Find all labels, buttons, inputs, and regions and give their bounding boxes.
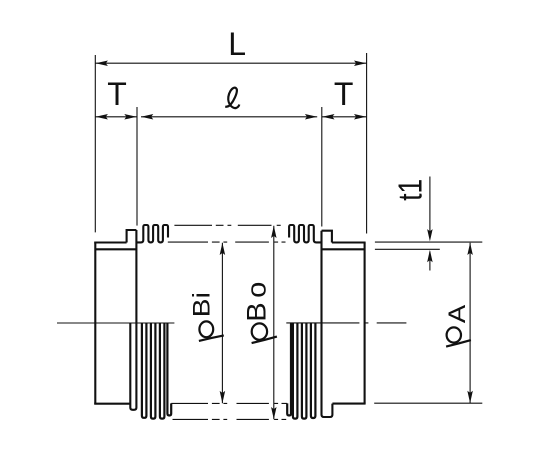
dimension line T left <box>95 116 137 118</box>
dimension line phi Bi <box>221 243 223 403</box>
flange F2 right: top surface <box>332 241 366 243</box>
label phi A <box>444 304 471 347</box>
convolution U4 left <box>160 323 165 419</box>
dimension line phi Bo <box>273 226 275 419</box>
bellows B1 top-left corrugations <box>136 225 321 242</box>
arrow ell right <box>305 114 317 120</box>
centerline axis left <box>57 322 174 324</box>
arrow Bo top <box>271 226 277 238</box>
flange F2 right: second line (sheet t1) <box>322 248 365 250</box>
extension line left inner <box>136 107 138 226</box>
convolution U4' right <box>311 323 316 418</box>
label phi Bo <box>241 277 277 343</box>
arrow ell left <box>141 114 153 120</box>
arrow T2 left <box>322 114 334 120</box>
arrow Bo bottom <box>271 407 277 419</box>
bellows B2 top-right corrugations <box>289 225 321 242</box>
centerline axis right <box>286 322 406 324</box>
flange F2 right: top tab <box>322 231 332 243</box>
arrow L right <box>354 60 366 65</box>
arrow A top <box>467 243 473 255</box>
extension line right inner <box>321 107 323 227</box>
flange F1 left: top tab <box>127 230 137 243</box>
dimension line phi A <box>469 243 471 403</box>
phantom line root bottom <box>171 402 287 404</box>
arrow Bi top <box>220 243 226 255</box>
convolution U3' right <box>302 323 307 419</box>
flange F1 left: outer edge <box>94 243 96 404</box>
flange F1 left: inner edge + bottom tab U <box>130 230 136 410</box>
convolution U3 left <box>151 323 156 419</box>
extension line flange top right <box>375 241 482 243</box>
arrow L left <box>96 60 108 65</box>
dimension line L <box>95 62 366 64</box>
extension line left outer <box>94 55 96 232</box>
arrow t1 down <box>427 229 433 241</box>
label phi Bi <box>187 292 223 341</box>
arrow t1 up <box>427 250 433 262</box>
flange F1 left: top surface <box>94 241 126 243</box>
label ell script <box>225 88 239 108</box>
arrow A bottom <box>467 391 473 403</box>
arrow T1 left <box>96 114 108 120</box>
dimension line T right <box>322 116 367 118</box>
bellows section convolutions (bottom half) <box>142 323 316 419</box>
arrow T2 right <box>354 114 366 120</box>
convolution U1' right <box>287 323 291 416</box>
dimension line ell <box>141 116 317 118</box>
extension line sheet bottom right <box>375 248 440 250</box>
svg-text:Bo: Bo <box>241 277 271 322</box>
arrow Bi bottom <box>220 391 226 403</box>
svg-text:T: T <box>334 76 354 112</box>
flange F1 left: bottom surface <box>94 403 130 405</box>
flange F2 right: bottom surface <box>332 403 365 405</box>
phantom line crest bottom <box>173 418 287 420</box>
svg-text:L: L <box>228 26 246 62</box>
svg-text:T: T <box>107 76 127 112</box>
svg-text:t1: t1 <box>393 179 429 201</box>
t1 arrow shafts <box>429 177 431 271</box>
extension line right outer <box>366 53 368 234</box>
flange F2 right: inner edge + bottom tab U <box>322 231 333 417</box>
phantom line crest top <box>174 224 280 226</box>
phantom line root top <box>168 241 286 243</box>
flange F2 right: outer edge <box>364 243 366 404</box>
arrow T1 right <box>124 114 136 120</box>
svg-text:Bi: Bi <box>187 292 215 317</box>
svg-text:A: A <box>444 304 470 323</box>
convolution U5 left <box>167 323 171 416</box>
extension line flange bottom right <box>374 402 482 404</box>
convolution U2' right <box>293 323 298 419</box>
convolution U2 left <box>142 323 147 418</box>
flange F1 left: second line (sheet t1) <box>95 248 136 250</box>
